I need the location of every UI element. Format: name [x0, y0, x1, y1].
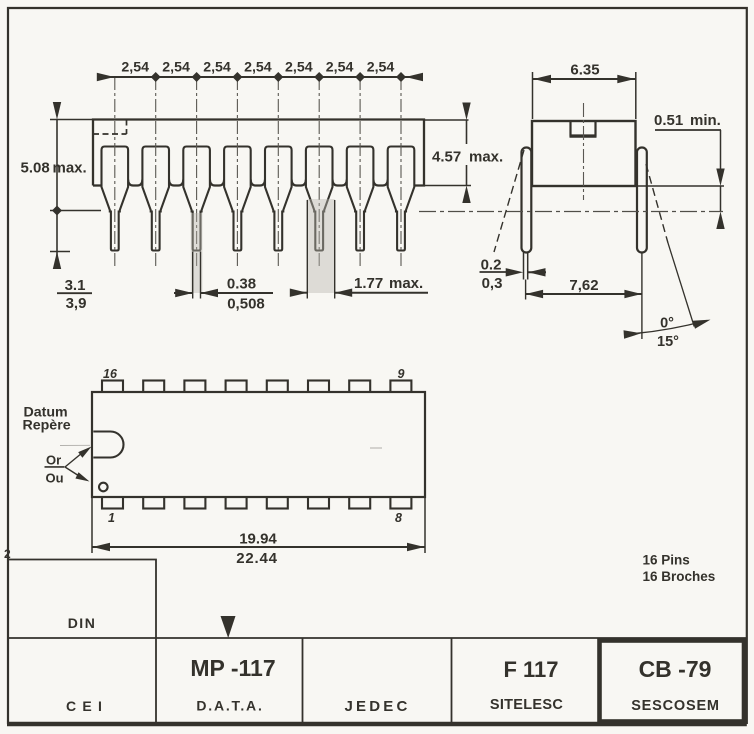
plan view: sixteen pin stubs [102, 381, 123, 394]
end view: right lead [637, 148, 647, 253]
svg-text:3.1: 3.1 [65, 277, 86, 294]
dimension 19.94 / 22.44 [91, 497, 93, 553]
svg-text:DIN: DIN [68, 615, 97, 631]
lead splay dashed line left [494, 150, 524, 252]
table: DIN cell [8, 560, 156, 639]
pin 2 side profile [142, 147, 169, 251]
svg-text:JEDEC: JEDEC [344, 698, 410, 715]
svg-text:22.44: 22.44 [236, 550, 278, 567]
shading band on pin 3 projection [191, 213, 203, 293]
pin 1 side profile [102, 147, 129, 251]
cell CB-79 highlighted box [600, 641, 745, 722]
dimension 0.38 / 0.508 [192, 252, 194, 299]
svg-text:2: 2 [4, 547, 11, 561]
pin 5 side profile [265, 147, 292, 251]
svg-text:F 117: F 117 [503, 657, 558, 682]
dimension 6.35 [532, 72, 534, 119]
svg-text:2,54: 2,54 [244, 60, 272, 76]
svg-text:0°: 0° [660, 316, 674, 332]
svg-text:MP -117: MP -117 [190, 655, 275, 681]
svg-text:Ou: Ou [46, 471, 64, 486]
svg-text:1: 1 [108, 511, 115, 525]
pin 6 side profile [306, 147, 333, 251]
side view: body bottom webs between pins [128, 180, 142, 186]
svg-text:SITELESC: SITELESC [490, 697, 564, 713]
table: bottom border [7, 722, 747, 727]
dimension chain 2,54 x7 [97, 76, 419, 78]
svg-text:2,54: 2,54 [162, 60, 190, 76]
svg-text:16 Pins: 16 Pins [643, 553, 690, 568]
right lead extension line [641, 253, 643, 340]
table: bottom row grid [8, 637, 747, 639]
pin 7 side profile [347, 147, 374, 251]
svg-text:max.: max. [53, 160, 87, 177]
shading band on pin 6 projection [307, 199, 334, 293]
angle dimension 0 to 15 degrees [629, 321, 707, 335]
svg-text:C E I: C E I [66, 698, 103, 714]
dimension 4.57 max [424, 119, 469, 121]
lead splay dashed line right [646, 164, 668, 243]
svg-text:2,54: 2,54 [326, 60, 354, 76]
svg-text:CB -79: CB -79 [639, 656, 712, 682]
svg-text:2,54: 2,54 [285, 60, 313, 76]
faint scan mark inside body [370, 447, 382, 449]
svg-text:Or: Or [46, 453, 61, 468]
pin 3 side profile [183, 147, 210, 251]
svg-text:8: 8 [395, 511, 402, 525]
svg-text:max.: max. [389, 275, 423, 292]
end view: top notch [571, 121, 596, 136]
svg-text:max.: max. [469, 149, 503, 166]
svg-text:0,508: 0,508 [227, 296, 265, 313]
svg-text:Repère: Repère [23, 418, 71, 434]
svg-text:0.51: 0.51 [654, 112, 683, 129]
svg-text:2,54: 2,54 [121, 60, 149, 76]
end view: package body [532, 121, 636, 186]
svg-text:D.A.T.A.: D.A.T.A. [196, 698, 263, 714]
seating plane centre line [419, 211, 723, 213]
svg-text:0.2: 0.2 [481, 257, 502, 274]
pin 4 side profile [224, 147, 251, 251]
dimension 7,62 [526, 293, 642, 295]
end view: left lead [522, 148, 532, 253]
svg-text:min.: min. [690, 112, 721, 129]
svg-text:2,54: 2,54 [367, 60, 395, 76]
plan view: datum D-notch [93, 432, 123, 458]
svg-text:9: 9 [398, 367, 405, 381]
plan view: package body [92, 392, 425, 497]
side view: dashed datum index outline [93, 120, 127, 135]
svg-text:19.94: 19.94 [239, 531, 277, 548]
marker triangle over D.A.T.A. column [221, 616, 236, 638]
svg-text:3,9: 3,9 [66, 295, 87, 312]
dimension 1.77 max [306, 200, 308, 299]
svg-text:1.77: 1.77 [354, 275, 383, 292]
svg-text:16 Broches: 16 Broches [643, 569, 716, 584]
svg-text:0.38: 0.38 [227, 276, 256, 293]
left lead thin tip [523, 253, 525, 280]
svg-text:4.57: 4.57 [432, 149, 461, 166]
side view: package body outline [93, 120, 424, 186]
svg-text:16: 16 [103, 367, 118, 381]
side view: pin centre lines [114, 77, 116, 266]
svg-text:15°: 15° [657, 334, 679, 350]
pin 8 side profile [388, 147, 415, 251]
svg-text:SESCOSEM: SESCOSEM [631, 698, 720, 714]
svg-text:6.35: 6.35 [570, 62, 599, 79]
plan view: pin-1 index dot [99, 483, 108, 492]
dimension 5.08 max [50, 119, 93, 121]
svg-text:5.08: 5.08 [21, 160, 50, 177]
svg-text:7,62: 7,62 [569, 277, 598, 294]
svg-text:2,54: 2,54 [203, 60, 231, 76]
end view: vertical centre line [583, 103, 585, 200]
svg-text:0,3: 0,3 [482, 275, 503, 292]
